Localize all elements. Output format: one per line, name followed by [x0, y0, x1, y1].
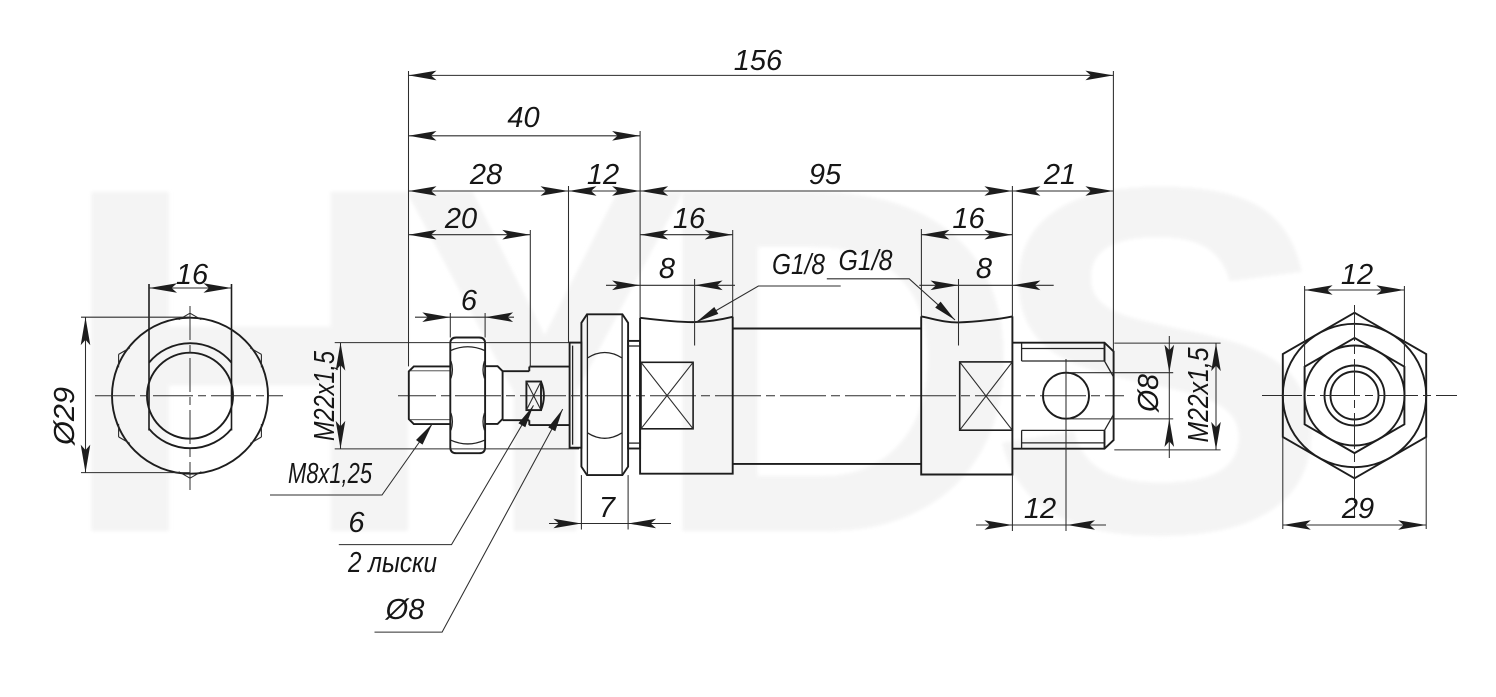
left view rod flats	[148, 284, 150, 431]
svg-text:M22x1,5: M22x1,5	[1183, 347, 1215, 443]
svg-text:20: 20	[444, 203, 477, 235]
dimension 12 eye line	[976, 524, 1106, 526]
left view centerlines	[95, 395, 283, 397]
dimension 8 rear port line	[919, 284, 1053, 286]
right view inner chamfer circle	[1305, 346, 1405, 446]
dimension M22x1,5 right line	[1215, 343, 1217, 450]
dimension 7 nut line	[549, 523, 671, 525]
svg-text:40: 40	[507, 102, 539, 134]
svg-text:16: 16	[176, 259, 209, 291]
rear port axis	[958, 279, 960, 346]
dimension D29 line	[85, 317, 87, 472]
leader flats	[339, 405, 534, 544]
svg-text:7: 7	[599, 492, 617, 524]
svg-text:G1/8: G1/8	[772, 249, 825, 281]
piston rod	[503, 370, 530, 372]
dimension M22x1,5 right extension lines	[1114, 342, 1220, 344]
dimension 8 front port line	[606, 284, 735, 286]
svg-text:8: 8	[976, 253, 992, 285]
rear cylinder head	[921, 316, 1012, 474]
rear eye hole axis	[1065, 359, 1067, 531]
svg-text:Ø8: Ø8	[385, 594, 425, 626]
left end view outer circle	[112, 318, 268, 474]
dimension 16 rear extension lines	[920, 229, 922, 316]
right view inner hexagon	[1305, 338, 1405, 453]
dimension 29 right view line	[1283, 524, 1426, 526]
dimension D8 eye extension lines	[1069, 372, 1173, 374]
svg-text:Ø8: Ø8	[1133, 374, 1165, 413]
dimension 16 rear head line	[921, 234, 1012, 236]
G1/8 leader right	[827, 279, 955, 320]
left view flat-clipped circle arcs	[149, 343, 232, 362]
left view hex corner tips	[119, 313, 262, 478]
svg-text:M22x1,5: M22x1,5	[309, 350, 341, 441]
leader D8 rod	[375, 409, 563, 632]
dimension 156 line	[409, 74, 1114, 76]
rear eye hole	[1043, 373, 1089, 419]
dimension 12 right view extension lines	[1304, 286, 1306, 367]
mounting nut M22	[581, 314, 628, 475]
svg-text:12: 12	[1341, 259, 1373, 291]
rear head X mark	[960, 362, 1013, 430]
svg-text:156: 156	[734, 45, 783, 77]
dimension D8 eye line	[1168, 336, 1170, 458]
front head X mark	[641, 362, 693, 429]
svg-text:28: 28	[469, 159, 502, 191]
dimension 20 extension line	[529, 230, 531, 367]
dimension 40 extension line	[639, 131, 641, 318]
piston rod M8 thread	[409, 366, 451, 424]
dimension 12 right view line	[1305, 289, 1405, 291]
nut retaining ring	[628, 341, 640, 449]
rod collar	[485, 366, 503, 424]
dimension 28 extension line	[568, 186, 570, 343]
dimension 156 extension lines	[408, 71, 410, 366]
svg-text:29: 29	[1341, 493, 1374, 525]
svg-text:16: 16	[952, 203, 985, 235]
front port axis	[694, 279, 696, 346]
rod wrench flats with X mark	[526, 382, 541, 411]
svg-text:G1/8: G1/8	[839, 245, 893, 277]
dimension 16 front extension line	[732, 230, 734, 317]
main centerline	[398, 395, 1124, 397]
svg-text:16: 16	[673, 203, 706, 235]
dimension 7 nut extension lines	[580, 475, 582, 529]
M8 thread root lines	[410, 370, 451, 372]
svg-text:12: 12	[587, 159, 619, 191]
svg-text:8: 8	[659, 253, 675, 285]
dimension 16 left view line	[149, 287, 232, 289]
svg-text:6: 6	[348, 507, 365, 539]
dimension D29 extension lines	[81, 316, 190, 318]
dimension chain 28 12 95 21 line	[409, 190, 1114, 192]
right end view outer hexagon	[1283, 313, 1426, 479]
dimension 6 jam nut extension lines	[449, 313, 451, 338]
right view thread hole circles	[1325, 366, 1385, 426]
right view centerlines	[1262, 395, 1457, 397]
svg-text:95: 95	[809, 159, 842, 191]
dimension M22x1,5 left extension lines	[335, 342, 570, 344]
svg-text:21: 21	[1043, 159, 1076, 191]
dimension 6 jam nut line	[415, 316, 514, 318]
left view inner circle	[147, 353, 233, 439]
svg-text:M8x1,25: M8x1,25	[288, 458, 373, 490]
svg-text:6: 6	[461, 285, 478, 317]
dimension 12 eye extension line	[1011, 475, 1013, 532]
rod shoulder	[529, 366, 569, 368]
jam nut	[450, 338, 485, 454]
leader M8x1,25	[270, 424, 433, 496]
G1/8 leader left	[696, 286, 840, 322]
dimension 16 front head line	[640, 234, 733, 236]
dimension M22x1,5 left line	[340, 343, 342, 449]
right view outer chamfer circle	[1283, 324, 1426, 467]
front cylinder head	[640, 317, 733, 474]
dimension 20 line	[409, 234, 531, 236]
dimension 40 line	[409, 135, 641, 137]
cylinder tube	[733, 328, 922, 330]
svg-text:12: 12	[1024, 493, 1056, 525]
svg-text:Ø29: Ø29	[49, 387, 81, 446]
svg-text:S: S	[987, 84, 1331, 635]
svg-text:2 лыски: 2 лыски	[347, 547, 437, 579]
dimension 29 right view extension lines	[1282, 437, 1284, 529]
rear eye hex boss	[1012, 343, 1113, 449]
mounting nut washer	[570, 343, 582, 448]
